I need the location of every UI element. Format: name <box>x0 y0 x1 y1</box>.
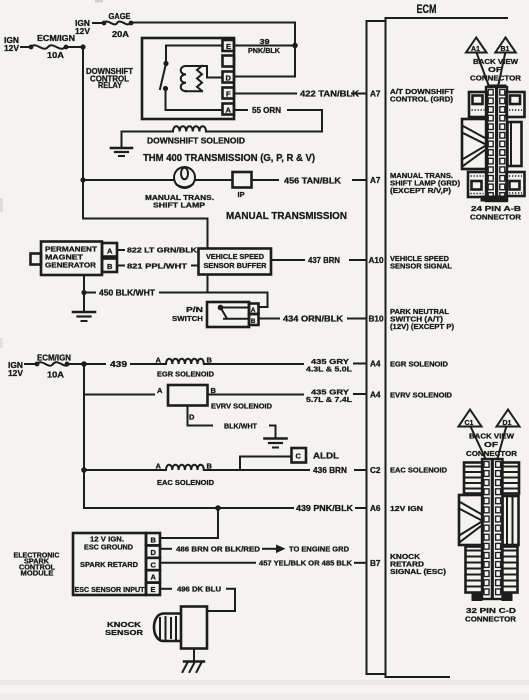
svg-text:EGR SOLENOID: EGR SOLENOID <box>390 360 449 369</box>
svg-text:D1: D1 <box>503 420 512 427</box>
svg-text:EVRV SOLENOID: EVRV SOLENOID <box>211 402 273 411</box>
svg-text:822 LT GRN/BLK: 822 LT GRN/BLK <box>127 246 198 255</box>
pin label MANUAL TRANS SHIFT LAMP <box>390 171 461 195</box>
PMG pin A <box>102 243 117 257</box>
svg-text:A: A <box>157 386 163 395</box>
svg-text:12V: 12V <box>4 44 20 53</box>
svg-text:A6: A6 <box>370 504 381 513</box>
svg-text:422 TAN/BLK: 422 TAN/BLK <box>300 90 359 99</box>
lamp: manual trans shift lamp <box>145 167 214 210</box>
svg-text:B1: B1 <box>501 46 510 53</box>
relay switch <box>160 46 223 111</box>
svg-text:CONNECTOR: CONNECTOR <box>465 615 517 624</box>
EVRV solenoid box <box>157 385 303 411</box>
P/N switch pin B <box>249 314 259 325</box>
svg-text:434 ORN/BLK: 434 ORN/BLK <box>283 315 343 324</box>
svg-text:SENSOR: SENSOR <box>105 628 144 637</box>
fuse ECM/IGN 10A (upper) <box>4 34 83 60</box>
svg-text:A7: A7 <box>370 90 381 99</box>
svg-text:A10: A10 <box>369 256 384 265</box>
svg-text:ALDL: ALDL <box>313 452 339 461</box>
svg-text:12V: 12V <box>75 27 91 36</box>
wire EVRV branch <box>84 394 154 396</box>
svg-text:D: D <box>151 548 157 557</box>
svg-text:ESC SENSOR INPUT: ESC SENSOR INPUT <box>75 585 145 594</box>
wire trunk lower ign <box>84 364 293 508</box>
connector C-D feet <box>472 593 483 601</box>
node: 450 BLK/WHT junction <box>81 290 86 295</box>
svg-text:12V: 12V <box>8 369 24 378</box>
svg-text:SPARK RETARD: SPARK RETARD <box>80 560 139 569</box>
svg-text:PNK/BLK: PNK/BLK <box>248 46 281 55</box>
P/N switch pin A <box>249 304 259 315</box>
ESC pin A <box>146 570 160 582</box>
node: EAC branch junction <box>81 467 87 473</box>
node: lamp branch junction <box>80 177 85 182</box>
svg-text:EVRV SOLENOID: EVRV SOLENOID <box>390 391 453 400</box>
svg-text:EAC SOLENOID: EAC SOLENOID <box>390 466 448 475</box>
wire 456 TAN/BLK to ECM A7 <box>252 177 367 186</box>
PMG pin B <box>102 259 117 273</box>
connector C-D right latch block <box>503 496 519 545</box>
wire 821 PPL/WHT <box>117 262 199 271</box>
svg-text:10A: 10A <box>47 371 64 380</box>
svg-text:B: B <box>107 262 113 271</box>
svg-text:RELAY: RELAY <box>98 81 122 90</box>
connector A-B lower right cavity <box>507 172 525 196</box>
svg-text:OF: OF <box>484 440 499 449</box>
relay pin A <box>223 104 235 115</box>
IP box <box>233 172 252 199</box>
wire PMG ground stub <box>83 275 85 311</box>
svg-text:B: B <box>151 536 157 545</box>
wire buffer bottom stub <box>207 275 209 293</box>
svg-text:A7: A7 <box>370 176 381 185</box>
ESC pin E <box>146 583 160 595</box>
ESC pin C <box>146 558 160 570</box>
wire ESC B feed <box>160 508 218 538</box>
svg-text:496 DK BLU: 496 DK BLU <box>177 585 221 594</box>
connector C-D left latch block <box>459 495 483 545</box>
ALDL connector pin C <box>292 448 340 463</box>
node: lower ign junction <box>81 361 87 367</box>
svg-text:C: C <box>151 560 157 569</box>
svg-text:EGR SOLENOID: EGR SOLENOID <box>157 370 215 379</box>
svg-text:B: B <box>207 461 213 470</box>
svg-text:D: D <box>189 413 195 422</box>
svg-text:10A: 10A <box>47 51 64 60</box>
svg-text:MODULE: MODULE <box>21 571 54 578</box>
scan artifacts (decorative) <box>0 680 529 685</box>
svg-text:12V IGN: 12V IGN <box>390 504 423 513</box>
connector C-D lower left rib block <box>466 547 483 593</box>
svg-text:DOWNSHIFT SOLENOID: DOWNSHIFT SOLENOID <box>147 137 245 146</box>
svg-text:CONTROL (GRD): CONTROL (GRD) <box>390 95 454 104</box>
relay pin F <box>223 88 235 99</box>
svg-text:821 PPL/WHT: 821 PPL/WHT <box>127 262 188 271</box>
connector 32 PIN C-D body <box>482 459 503 599</box>
vehicle speed sensor buffer box <box>199 249 272 275</box>
label DOWNSHIFT CONTROL RELAY <box>86 67 133 90</box>
wire 39 PNK/BLK from relay E to ign net <box>234 37 295 55</box>
svg-text:VEHICLE SPEED: VEHICLE SPEED <box>206 252 265 261</box>
ESC module box <box>73 533 146 595</box>
pin label PARK NEUTRAL SWITCH <box>390 307 455 331</box>
svg-text:437 BRN: 437 BRN <box>308 256 340 265</box>
fuse GAGE 20A <box>75 12 133 39</box>
svg-text:GENERATOR: GENERATOR <box>45 261 97 270</box>
svg-text:ECM: ECM <box>417 4 437 16</box>
svg-text:E: E <box>151 585 156 594</box>
svg-text:CONNECTOR: CONNECTOR <box>470 213 522 222</box>
pointer lines to connector (C-D) <box>471 428 487 463</box>
svg-text:B: B <box>251 318 256 325</box>
ESC pin D <box>146 545 160 557</box>
svg-text:A: A <box>107 247 113 256</box>
connector 32 PIN C-D: triangle C1 <box>459 410 482 428</box>
P/N switch contacts <box>218 305 249 319</box>
svg-text:SENSOR SIGNAL: SENSOR SIGNAL <box>390 262 452 271</box>
svg-text:20A: 20A <box>112 30 129 39</box>
svg-text:F: F <box>226 89 231 98</box>
pin label VEHICLE SPEED SENSOR SIGNAL <box>390 254 452 271</box>
permanent magnet generator box <box>31 242 103 276</box>
svg-text:C1: C1 <box>465 420 474 427</box>
svg-text:GAGE: GAGE <box>109 12 131 21</box>
ground: PMG ground <box>73 312 95 321</box>
svg-text:A: A <box>156 355 162 364</box>
svg-text:B7: B7 <box>370 559 381 568</box>
connector A-B left latch block <box>462 119 487 169</box>
svg-text:C: C <box>296 452 302 461</box>
knock sensor body <box>154 607 207 649</box>
connector C-D upper left rib block <box>464 463 483 494</box>
wire 422 TAN/BLK relay F to ECM A7 <box>234 90 366 99</box>
pin label A/T DOWNSHIFT CONTROL (GRD) <box>390 87 454 104</box>
connector A-B right latch block <box>508 122 522 166</box>
svg-text:ECM/IGN: ECM/IGN <box>37 34 75 43</box>
wire lamp feed <box>83 179 173 181</box>
label knock sensor <box>105 620 144 637</box>
EAC solenoid coil <box>154 461 309 487</box>
wire 435 GRY 4.3L to ECM A4 <box>306 357 366 374</box>
label BACK VIEW OF CONNECTOR (C-D) <box>466 432 518 459</box>
label 32 PIN C-D CONNECTOR <box>465 606 517 624</box>
svg-text:E: E <box>226 42 231 51</box>
connector 32 PIN C-D: triangle D1 <box>497 410 520 428</box>
svg-text:457 YEL/BLK OR 485 BLK: 457 YEL/BLK OR 485 BLK <box>259 559 353 568</box>
svg-text:EAC SOLENOID: EAC SOLENOID <box>157 478 215 487</box>
relay pin D <box>223 72 235 83</box>
wire from junction down to relay pin D <box>234 46 295 77</box>
svg-text:486 BRN OR BLK/RED: 486 BRN OR BLK/RED <box>176 545 261 554</box>
svg-text:SENSOR BUFFER: SENSOR BUFFER <box>204 261 268 270</box>
fuse ECM/IGN 10A (lower) <box>8 354 84 380</box>
svg-text:450 BLK/WHT: 450 BLK/WHT <box>99 289 155 298</box>
pin label KNOCK RETARD SIGNAL (ESC) <box>390 552 447 576</box>
wire from GAGE fuse to relay pin E net <box>131 23 295 46</box>
svg-text:439 PNK/BLK: 439 PNK/BLK <box>296 504 353 513</box>
svg-text:(EXCEPT R/V,P): (EXCEPT R/V,P) <box>390 186 452 195</box>
svg-text:C2: C2 <box>370 466 381 475</box>
svg-text:BLK/WHT: BLK/WHT <box>224 422 257 431</box>
svg-text:A: A <box>156 461 162 470</box>
svg-text:ESC GROUND: ESC GROUND <box>84 543 134 552</box>
wire 450 BLK/WHT <box>84 289 268 307</box>
wire 496 DK BLU to knock sensor <box>160 585 235 612</box>
svg-text:D: D <box>226 73 232 82</box>
node: 439 PNK/BLK junction to ESC <box>215 505 221 511</box>
connector 24 PIN A-B: triangle A1 <box>466 38 487 54</box>
wire 822 LT GRN/BLK <box>117 246 199 255</box>
svg-text:436 BRN: 436 BRN <box>313 466 347 475</box>
svg-text:ECM/IGN: ECM/IGN <box>37 354 71 363</box>
P/N switch label <box>172 305 203 323</box>
EGR solenoid coil <box>154 355 303 378</box>
wire 55 ORN relay A to downshift solenoid <box>234 106 322 115</box>
svg-text:THM 400 TRANSMISSION (G, P, R: THM 400 TRANSMISSION (G, P, R & V) <box>143 152 315 164</box>
svg-text:CONNECTOR: CONNECTOR <box>466 449 518 458</box>
svg-text:P/N: P/N <box>186 305 203 314</box>
relay pin blank <box>223 56 235 67</box>
connector A-B upper right cavity <box>507 92 525 117</box>
svg-text:MANUAL TRANSMISSION: MANUAL TRANSMISSION <box>226 210 347 222</box>
svg-text:B10: B10 <box>369 315 384 324</box>
svg-text:SWITCH: SWITCH <box>172 314 203 323</box>
svg-text:5.7L & 7.4L: 5.7L & 7.4L <box>306 395 352 404</box>
wire 457 YEL/BLK OR 485 BLK to ECM B7 <box>160 559 366 568</box>
connector A-B feet <box>481 196 507 202</box>
wire 437 BRN buffer to ECM A10 <box>271 256 366 265</box>
wire EAC branch <box>84 469 154 471</box>
connector 24 PIN A-B body <box>486 85 507 202</box>
label 24 PIN A-B CONNECTOR <box>470 204 522 222</box>
node: 39 PNK/BLK junction <box>292 43 298 49</box>
svg-text:(12V) (EXCEPT P): (12V) (EXCEPT P) <box>390 322 455 331</box>
svg-text:A1: A1 <box>471 46 480 53</box>
EVRV pin D stub wire BLK/WHT <box>188 406 276 438</box>
wire trunk ign feed down to buffer branch <box>83 47 208 249</box>
svg-text:SIGNAL (ESC): SIGNAL (ESC) <box>390 567 447 576</box>
connector C-D upper right rib block <box>502 463 519 494</box>
node: ign feed junction <box>80 44 85 49</box>
svg-text:A4: A4 <box>370 391 381 400</box>
label BACK VIEW OF CONNECTOR (A-B) <box>470 57 522 83</box>
label electronic spark control module <box>14 553 60 578</box>
svg-text:55 ORN: 55 ORN <box>252 106 281 115</box>
svg-text:A: A <box>151 573 157 582</box>
connector 24 PIN A-B: triangle B1 <box>495 38 516 54</box>
svg-text:4.3L & 5.0L: 4.3L & 5.0L <box>306 365 352 374</box>
relay pin E <box>223 40 235 51</box>
wire 434 ORN/BLK to ECM B10 <box>259 315 367 324</box>
relay coil <box>181 66 223 91</box>
svg-text:A: A <box>226 105 232 114</box>
wire 486 BRN OR BLK/RED to engine ground <box>160 545 350 554</box>
downshift control relay box <box>142 38 234 119</box>
svg-text:TO ENGINE GRD: TO ENGINE GRD <box>289 545 350 554</box>
svg-text:CONNECTOR: CONNECTOR <box>470 74 522 83</box>
P/N switch box <box>207 302 249 327</box>
connector A-B lower left cavity <box>468 172 487 197</box>
wire 435 GRY 5.7L to ECM A4 <box>306 388 366 405</box>
svg-text:39: 39 <box>260 37 270 46</box>
ground: knock sensor chassis ground <box>183 649 205 673</box>
svg-text:A4: A4 <box>370 360 381 369</box>
svg-text:SHIFT LAMP: SHIFT LAMP <box>153 201 205 210</box>
ground: BLK/WHT ground <box>265 439 287 448</box>
svg-text:IP: IP <box>238 190 245 199</box>
wire 436 BRN to ECM C2 <box>313 466 366 475</box>
ECM boundary lines <box>367 18 508 677</box>
ground: downshift solenoid ground <box>111 132 132 157</box>
pointer lines to connector (A-B) <box>477 54 490 89</box>
wire 439 to EGR <box>84 360 154 369</box>
connector C-D lower right rib block <box>502 547 518 593</box>
wire lamp to IP <box>196 179 233 181</box>
svg-text:B: B <box>207 355 213 364</box>
wire ALDL branch <box>240 457 292 471</box>
svg-text:439: 439 <box>110 360 128 369</box>
ESC pin B <box>146 533 160 545</box>
wire 439 PNK/BLK to ECM A6 <box>296 504 366 513</box>
svg-text:456 TAN/BLK: 456 TAN/BLK <box>284 177 341 186</box>
downshift solenoid coil <box>122 110 323 146</box>
connector A-B upper left cavity <box>469 92 487 117</box>
